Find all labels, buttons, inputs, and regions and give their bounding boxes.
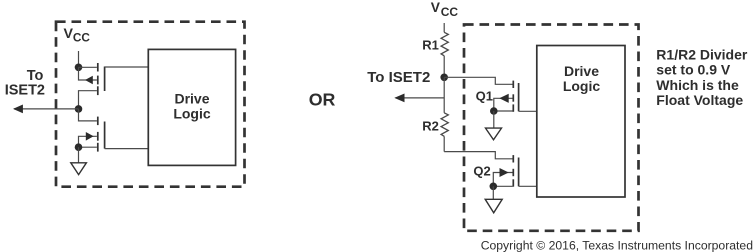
drive logic box (right): [537, 46, 625, 198]
note R1/R2 divider text: [656, 46, 748, 108]
ground symbol (left): [71, 163, 87, 175]
transistor PMOS top-left: [79, 63, 105, 95]
ground symbol Q2: [485, 199, 502, 213]
drive logic box (left): [148, 49, 235, 165]
node divider junction dot: [440, 74, 448, 82]
wire VCC to node: [78, 51, 80, 67]
wire VCC to R1: [443, 23, 445, 32]
wire gate Q2 to drive logic: [519, 185, 537, 187]
wire gate Q1 to drive logic: [519, 110, 537, 112]
node VCC junction dot: [75, 64, 83, 72]
wire down to R2 with arrow stub: [443, 77, 445, 113]
wire to ISET2 arrow (left): [14, 108, 79, 110]
wire Q1 source to ground: [493, 111, 495, 128]
svg-text:OR: OR: [309, 90, 336, 110]
transistor Q2: [493, 155, 518, 187]
node Q1 source junction dot: [490, 107, 498, 115]
svg-text:To ISET2: To ISET2: [367, 69, 430, 86]
right dashed enclosure: [464, 25, 639, 231]
wire Q2 source to ground: [492, 186, 494, 199]
svg-text:Logic: Logic: [563, 78, 601, 94]
svg-text:R1/R2 Divider: R1/R2 Divider: [656, 46, 748, 62]
svg-text:Float Voltage: Float Voltage: [656, 92, 743, 108]
transistor Q1: [494, 81, 519, 112]
label To ISET2 (left): [5, 68, 45, 98]
arrowhead To ISET2 left: [13, 105, 23, 114]
node ISET2 mid junction dot: [75, 105, 83, 113]
svg-text:CC: CC: [73, 30, 91, 44]
node NMOS source junction dot: [75, 143, 83, 151]
svg-text:V: V: [431, 0, 441, 15]
wire gate PMOS to drive logic: [105, 66, 149, 68]
svg-text:set to 0.9 V: set to 0.9 V: [656, 62, 731, 78]
svg-text:Q1: Q1: [476, 89, 493, 104]
svg-text:Logic: Logic: [173, 105, 211, 121]
resistor R1: [441, 32, 448, 77]
transistor NMOS bottom-left: [79, 109, 105, 152]
left dashed enclosure: [56, 22, 245, 187]
svg-text:Which is the: Which is the: [656, 77, 739, 93]
svg-text:Drive: Drive: [174, 91, 209, 107]
wire PMOS drain to mid node: [79, 91, 97, 109]
wire to ground (left): [78, 147, 80, 163]
VCC label (left): [64, 26, 91, 44]
svg-text:ISET2: ISET2: [5, 82, 45, 98]
resistor R2: [441, 113, 448, 152]
svg-text:Drive: Drive: [564, 63, 599, 79]
svg-text:R2: R2: [422, 118, 439, 133]
arrowhead To ISET2 right: [394, 94, 404, 103]
node Q2 source junction dot: [490, 183, 498, 191]
svg-text:Copyright © 2016, Texas Instru: Copyright © 2016, Texas Instruments Inco…: [481, 239, 753, 252]
svg-text:R1: R1: [422, 38, 439, 53]
VCC label (right): [431, 0, 459, 19]
wire arrow stub: [396, 97, 445, 99]
wire gate NMOS to drive logic: [105, 148, 149, 150]
wire divider node to Q1 drain: [444, 77, 512, 84]
ground symbol Q1: [486, 128, 502, 140]
svg-text:CC: CC: [441, 5, 459, 19]
wire R2 to Q2 drain: [444, 152, 512, 159]
svg-text:Q2: Q2: [473, 164, 490, 179]
